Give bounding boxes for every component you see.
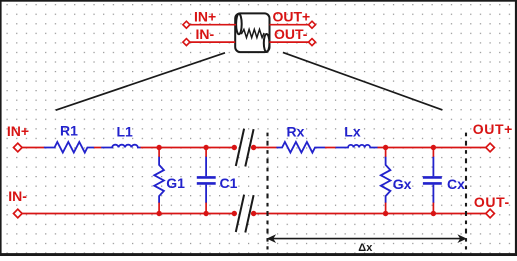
callout line left <box>56 53 225 110</box>
wire Gx bottom stub <box>385 203 387 214</box>
wire C1 top stub <box>205 148 207 157</box>
wire top rail: IN+ to R1 <box>22 147 44 149</box>
label Gx <box>393 176 412 192</box>
label OUT+ (main) <box>473 121 513 137</box>
svg-text:G1: G1 <box>166 175 185 191</box>
wire G1 top stub <box>158 148 160 157</box>
svg-text:C1: C1 <box>220 175 238 191</box>
wire C1 bottom stub <box>205 203 207 214</box>
wire top rail: break to Rx <box>254 147 277 149</box>
label G1 <box>166 175 185 191</box>
resistor Rx <box>276 142 325 153</box>
callout line right <box>283 52 443 110</box>
svg-text:IN+: IN+ <box>194 8 216 24</box>
junction bottom rail left of break <box>232 211 237 216</box>
wire top rail: Lx to OUT+ <box>378 147 486 149</box>
break marks top rail <box>236 129 254 167</box>
junction at Cx bottom <box>431 211 436 216</box>
section boundary right (dashed) <box>465 133 467 250</box>
svg-text:Gx: Gx <box>393 176 412 192</box>
port IN- (main) <box>14 209 23 218</box>
junction at Gx top <box>383 145 388 150</box>
svg-text:Lx: Lx <box>344 123 361 139</box>
junction top rail right of break <box>251 145 256 150</box>
wire IN- (top symbol) <box>190 41 235 43</box>
port OUT- (main) <box>486 209 495 218</box>
svg-text:OUT+: OUT+ <box>473 121 513 137</box>
label Rx <box>287 123 305 139</box>
svg-text:R1: R1 <box>60 123 78 139</box>
wire OUT- (top symbol) <box>269 41 308 43</box>
label Lx <box>344 123 361 139</box>
junction top rail left of break <box>232 145 237 150</box>
label OUT- (main) <box>474 194 510 210</box>
junction at C1 top <box>203 145 208 150</box>
svg-text:OUT-: OUT- <box>274 26 308 42</box>
inductor Lx <box>336 145 378 148</box>
label IN+ (main) <box>7 123 29 139</box>
wire Cx bottom stub <box>432 203 434 214</box>
svg-text:IN-: IN- <box>8 188 27 204</box>
capacitor Cx (shunt) <box>423 156 442 203</box>
label Cx <box>447 176 465 192</box>
svg-text:IN+: IN+ <box>7 123 29 139</box>
wire Gx top stub <box>385 148 387 157</box>
label L1 <box>117 123 134 139</box>
wire top rail: R1 to L1 <box>94 147 101 149</box>
wire IN+ (top symbol) <box>190 24 236 26</box>
label IN- (main) <box>8 188 27 204</box>
svg-text:OUT-: OUT- <box>474 194 510 210</box>
port IN- (top symbol) <box>183 39 190 46</box>
wire bottom rail: IN- to break <box>22 213 234 215</box>
label OUT- (top) <box>274 26 308 42</box>
capacitor C1 (shunt) <box>197 156 216 203</box>
wire Cx top stub <box>432 148 434 157</box>
dimension arrow dx <box>267 234 467 243</box>
transmission line U1 (cylinder symbol) <box>235 13 269 52</box>
wire top rail: L1 to break <box>141 147 235 149</box>
junction at Gx bottom <box>383 211 388 216</box>
wire G1 bottom stub <box>158 203 160 214</box>
section boundary left (dashed) <box>266 133 268 250</box>
port IN+ (top symbol) <box>183 21 190 28</box>
junction bottom rail right of break <box>251 211 256 216</box>
wire OUT+ (top symbol) <box>270 24 309 26</box>
junction at C1 bottom <box>203 211 208 216</box>
port OUT+ (top symbol) <box>309 21 316 28</box>
label R1 <box>60 123 78 139</box>
svg-text:Δx: Δx <box>358 242 373 254</box>
label OUT+ (top) <box>273 8 311 24</box>
resistor Gx (shunt) <box>381 156 391 203</box>
port IN+ (main) <box>14 143 23 152</box>
junction at Cx top <box>431 145 436 150</box>
port OUT- (top symbol) <box>309 39 316 46</box>
svg-text:Cx: Cx <box>447 176 465 192</box>
inductor L1 <box>101 145 141 148</box>
resistor R1 <box>44 142 94 153</box>
svg-text:Rx: Rx <box>287 123 305 139</box>
svg-text:IN-: IN- <box>196 26 215 42</box>
port OUT+ (main) <box>486 143 495 152</box>
svg-text:L1: L1 <box>117 123 134 139</box>
svg-text:OUT+: OUT+ <box>273 8 311 24</box>
break marks bottom rail <box>236 195 254 233</box>
wire bottom rail: break to OUT- <box>254 213 486 215</box>
label dx <box>358 242 373 254</box>
label IN+ (top) <box>194 8 216 24</box>
label IN- (top) <box>196 26 215 42</box>
junction at R1/G1 node <box>156 145 161 150</box>
wire top rail: Rx to Lx <box>325 147 336 149</box>
label C1 <box>220 175 238 191</box>
junction at G1 bottom <box>156 211 161 216</box>
resistor G1 (shunt) <box>154 156 164 203</box>
